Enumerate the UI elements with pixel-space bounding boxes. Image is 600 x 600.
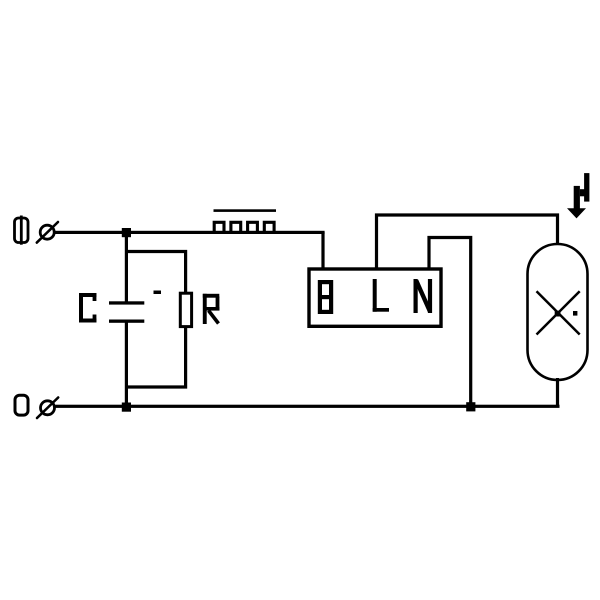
capacitor C plates [109, 301, 144, 323]
capacitor branch wire (top) [125, 233, 128, 304]
resistor R body [180, 293, 191, 326]
wire ballast L to lamp top [377, 215, 558, 269]
resistor loop wire (bottom) [126, 327, 186, 388]
label C [79, 293, 96, 323]
terminal label L [373, 279, 389, 312]
resistor loop wire (top) [126, 252, 186, 294]
terminal (phase input socket) [37, 222, 58, 243]
terminal (neutral input socket) [37, 398, 58, 419]
lamp side dot [573, 311, 577, 316]
node junction phase/capacitor branch [122, 228, 131, 237]
capacitor branch wire (bottom) [125, 321, 128, 407]
neutral symbol O (label of input terminal) [15, 395, 28, 415]
phase symbol Φ (label of input terminal) [15, 216, 29, 245]
bottom rail wire [56, 405, 560, 408]
inductor L1 core bar [214, 209, 277, 212]
ignition pulse arrow (lightning bolt) [567, 173, 589, 218]
ballast box [309, 269, 441, 326]
node junction neutral/ballast N [466, 402, 475, 411]
terminal label N [414, 279, 433, 313]
lamp center dot [555, 311, 561, 317]
terminal label B [318, 282, 333, 312]
wire phase terminal to ballast corner [55, 231, 325, 234]
lamp cross electrode marks [537, 291, 580, 334]
lamp envelope [528, 244, 588, 380]
wire ballast N to bottom rail [429, 238, 471, 407]
node junction neutral/capacitor branch [122, 403, 131, 412]
wire down to ballast terminal B [321, 232, 324, 270]
inductor L1 winding [214, 222, 274, 232]
polarity dash above capacitor [154, 291, 162, 295]
wire lamp bottom to rail [556, 378, 559, 407]
label R [203, 294, 220, 324]
